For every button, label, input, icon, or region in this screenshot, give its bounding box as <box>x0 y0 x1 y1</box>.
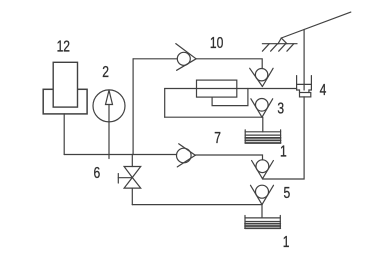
svg-text:2: 2 <box>102 63 109 81</box>
long wire to pump 4 <box>165 88 297 90</box>
main horizontal wire (cylinder line) <box>64 154 176 156</box>
pump cylinder 4 <box>297 76 312 97</box>
svg-text:10: 10 <box>210 33 224 51</box>
return wire (valve 6 to tank line) <box>132 204 262 206</box>
tank 7 <box>245 130 280 143</box>
wire from cylinder 12 down to main line <box>63 114 65 155</box>
cylinder bottom wire <box>165 116 262 118</box>
wire valve 5 to bottom tank <box>261 205 263 218</box>
svg-text:4: 4 <box>320 80 327 98</box>
svg-text:1: 1 <box>283 233 290 251</box>
check valve (suction upper, 1-chain) <box>252 160 274 179</box>
piston (upper rectangle) <box>197 80 237 97</box>
horizontal check valve (cylinder line) <box>177 144 196 167</box>
svg-text:7: 7 <box>214 128 221 146</box>
check valve 3 <box>251 99 273 118</box>
pivot triangle <box>278 38 287 44</box>
tank 1 (bottom) <box>245 216 280 229</box>
check valve 5 <box>251 185 274 204</box>
svg-text:3: 3 <box>277 99 284 117</box>
lever handle <box>281 12 351 38</box>
wire from check valve seat to right corner <box>195 155 262 160</box>
wire valve10 to right column <box>196 59 262 69</box>
plunger (lower stepped rectangle) <box>212 89 248 106</box>
wire pump 4 down to valve chain <box>263 97 305 179</box>
shutoff valve 6 <box>118 155 140 205</box>
ram/weight of 12 <box>53 62 77 107</box>
pump plunger rod <box>303 30 305 91</box>
svg-text:1: 1 <box>280 142 287 160</box>
wire valve 3 to tank 7 <box>262 117 264 132</box>
ground (hatched support) <box>262 44 297 52</box>
check valve (discharge, above 3) <box>250 68 273 86</box>
weight/ram 12 <box>43 89 87 114</box>
riser wire left (to valve 10) <box>132 59 134 155</box>
cylinder body left wall <box>164 89 166 118</box>
svg-text:12: 12 <box>57 37 71 55</box>
svg-text:6: 6 <box>93 164 100 182</box>
svg-text:5: 5 <box>284 183 291 201</box>
check valve 10 <box>133 44 196 71</box>
pressure gauge 2 <box>93 90 125 159</box>
